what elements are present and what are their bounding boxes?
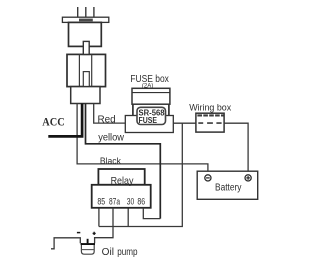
wire red vertical down to relay bus xyxy=(99,123,182,226)
svg-text:30: 30 xyxy=(127,197,134,207)
svg-text:Relay: Relay xyxy=(111,176,135,187)
svg-text:yellow: yellow xyxy=(98,133,124,144)
svg-text:ACC: ACC xyxy=(42,117,64,129)
relay pin labels 85 87a 30 86 xyxy=(97,197,145,207)
wire relay pin 87a to oil pump plus xyxy=(95,208,113,243)
svg-text:FUSE: FUSE xyxy=(139,116,158,125)
wire fuse tray to wiring box xyxy=(173,122,196,124)
svg-text:Black: Black xyxy=(100,156,121,166)
wire black from connector to battery minus xyxy=(77,104,208,172)
fuse holder outer box xyxy=(132,88,170,104)
wire yellow from connector to relay pin 86 column xyxy=(86,104,161,219)
svg-text:85: 85 xyxy=(97,197,105,207)
ignition switch pins xyxy=(78,7,94,17)
svg-text:Battery: Battery xyxy=(215,183,242,194)
fuse tray base xyxy=(125,116,173,133)
svg-text:Wiring box: Wiring box xyxy=(189,102,231,113)
svg-text:Oilpump: Oilpump xyxy=(102,247,138,258)
fuse holder lid seam xyxy=(132,92,170,94)
ignition connector body box xyxy=(67,54,106,86)
ignition switch cap dark center xyxy=(79,19,93,22)
tab between switch and connector xyxy=(83,41,89,54)
oil pump top bar xyxy=(81,243,95,245)
fuse SR-568 rounded body xyxy=(137,107,166,124)
oil pump plus label xyxy=(93,232,96,235)
battery minus terminal xyxy=(205,175,211,181)
wire red from connector to fuse tray xyxy=(94,104,126,124)
oil pump cup body xyxy=(81,243,94,254)
oil pump minus label xyxy=(77,232,80,234)
wiring box top terminal band xyxy=(197,114,223,116)
wire wiring box to battery plus xyxy=(224,123,248,171)
fuse holder wall stubs xyxy=(133,104,169,116)
wire oil pump minus with ground hook xyxy=(51,238,80,249)
oil pump inner line xyxy=(81,249,94,251)
svg-text:86: 86 xyxy=(137,197,145,207)
oil pump center pin xyxy=(87,239,89,244)
connector lower box xyxy=(71,87,100,104)
relay coil box xyxy=(98,169,144,185)
ignition switch cap bar xyxy=(62,17,108,22)
svg-text:Red: Red xyxy=(98,115,116,126)
wire relay pin 86 to yellow column xyxy=(143,208,160,219)
wiring box middle dashes xyxy=(198,122,221,124)
battery plus terminal xyxy=(245,175,251,181)
connector inner divider lines xyxy=(79,54,91,86)
wiring box body xyxy=(196,113,224,132)
battery body xyxy=(197,171,258,199)
relay wide box xyxy=(92,185,151,208)
wire ACC thick xyxy=(48,104,82,137)
ignition switch upper body box xyxy=(69,22,102,46)
connector inner slot xyxy=(83,72,89,87)
svg-text:87a: 87a xyxy=(109,197,120,207)
